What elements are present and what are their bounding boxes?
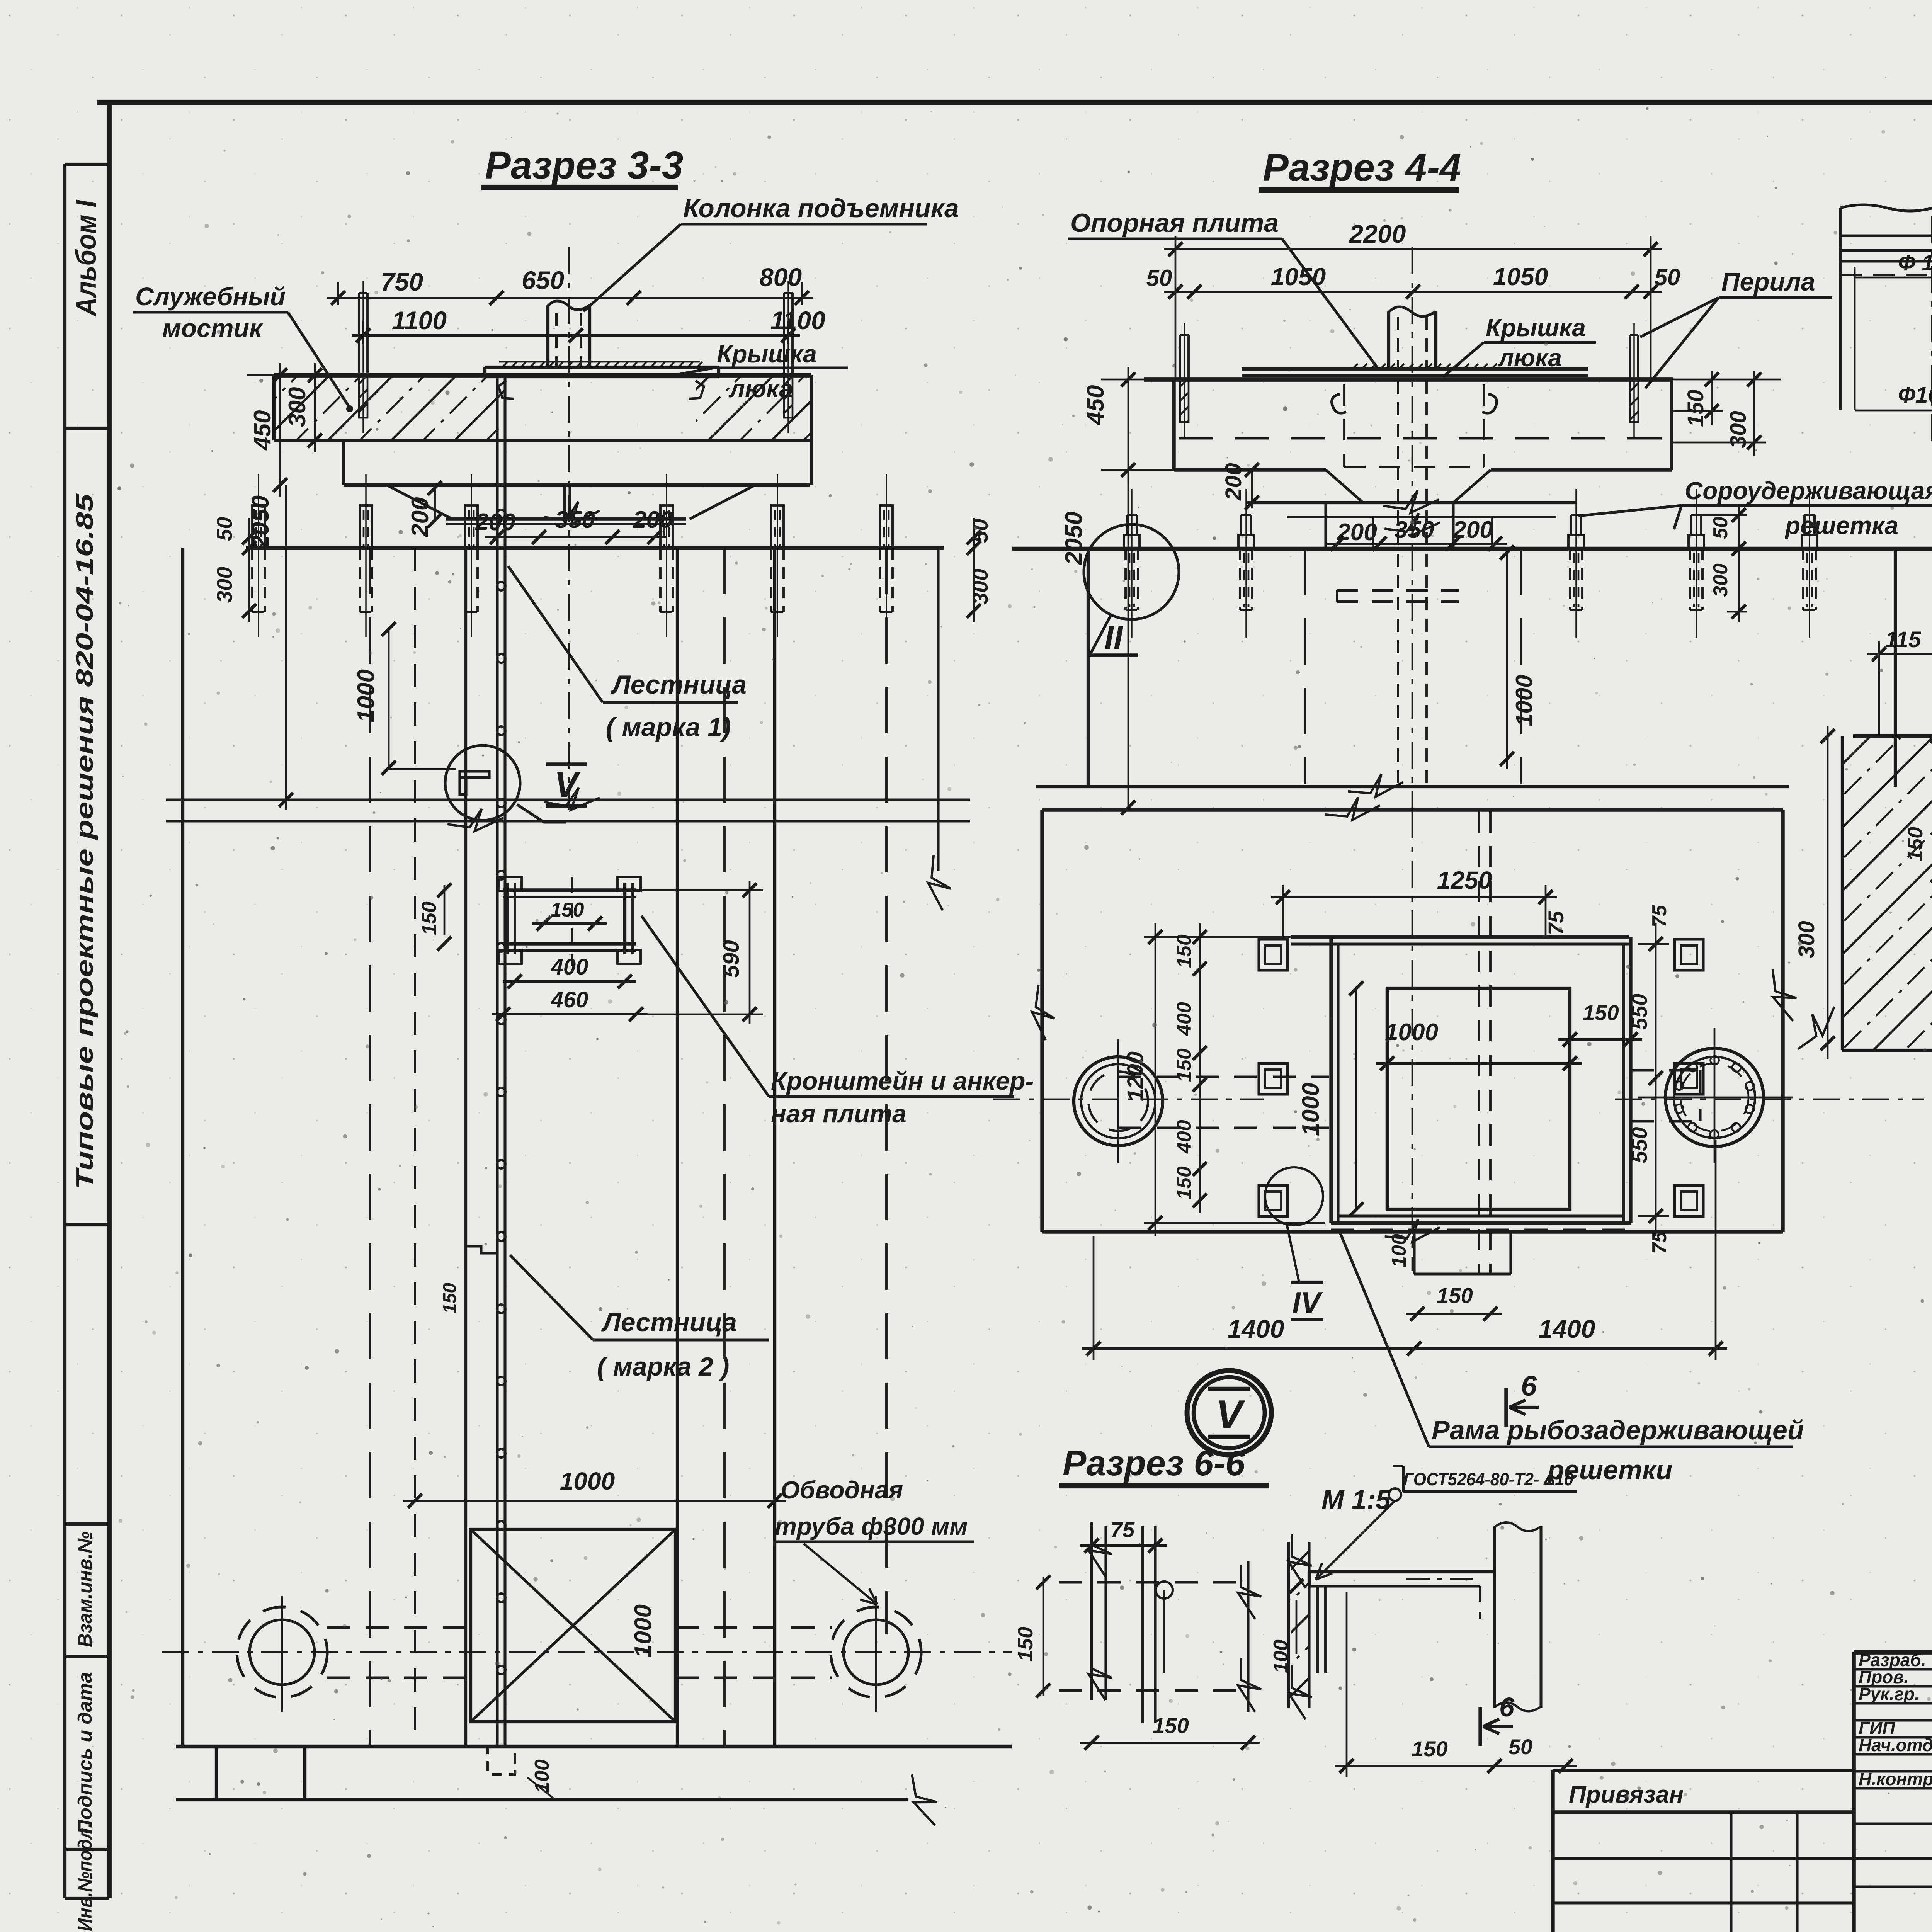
svg-text:Разрез 4-4: Разрез 4-4 bbox=[1263, 146, 1461, 189]
svg-text:50: 50 bbox=[1509, 1735, 1532, 1759]
svg-text:115: 115 bbox=[1885, 627, 1921, 652]
svg-text:Инв. №: Инв. № bbox=[1557, 1928, 1622, 1932]
svg-text:Инв.№подл.: Инв.№подл. bbox=[74, 1823, 96, 1931]
svg-text:550: 550 bbox=[1627, 994, 1651, 1030]
svg-text:Служебный: Служебный bbox=[135, 282, 286, 311]
svg-text:200: 200 bbox=[1337, 519, 1377, 546]
svg-text:800: 800 bbox=[759, 263, 802, 291]
svg-text:1200: 1200 bbox=[1123, 1051, 1148, 1101]
svg-text:Крышка: Крышка bbox=[717, 340, 817, 368]
svg-text:Типовые проектные решения 8: Типовые проектные решения 820-04-16.85 bbox=[71, 493, 98, 1189]
svg-text:Лестница: Лестница bbox=[611, 670, 747, 699]
svg-text:50: 50 bbox=[212, 517, 236, 541]
svg-text:50: 50 bbox=[1146, 265, 1172, 291]
svg-text:450: 450 bbox=[249, 410, 276, 451]
svg-text:1050: 1050 bbox=[1493, 263, 1548, 291]
svg-text:50: 50 bbox=[1655, 264, 1680, 290]
svg-text:1400: 1400 bbox=[1539, 1315, 1595, 1343]
svg-text:2050: 2050 bbox=[247, 495, 274, 549]
svg-text:150: 150 bbox=[1173, 934, 1196, 968]
svg-text:1100: 1100 bbox=[770, 306, 825, 335]
svg-text:ная плита: ная плита bbox=[771, 1099, 906, 1128]
svg-text:ГОСТ5264-80-Т2- Δ10: ГОСТ5264-80-Т2- Δ10 bbox=[1403, 1469, 1573, 1489]
svg-text:200: 200 bbox=[475, 509, 515, 536]
svg-text:( марка 1): ( марка 1) bbox=[606, 713, 731, 742]
svg-text:150: 150 bbox=[1437, 1283, 1473, 1308]
svg-text:2050: 2050 bbox=[1061, 512, 1087, 565]
svg-text:труба ф300 мм: труба ф300 мм bbox=[775, 1512, 968, 1540]
svg-text:150: 150 bbox=[1683, 389, 1708, 427]
svg-text:75: 75 bbox=[1648, 1231, 1671, 1254]
svg-text:200: 200 bbox=[1221, 463, 1246, 501]
svg-text:100: 100 bbox=[1388, 1234, 1410, 1267]
svg-text:( марка 2 ): ( марка 2 ) bbox=[597, 1352, 730, 1381]
svg-text:Подпись и дата: Подпись и дата bbox=[74, 1672, 96, 1834]
svg-text:1250: 1250 bbox=[1437, 866, 1492, 894]
svg-text:1000: 1000 bbox=[353, 669, 379, 723]
svg-text:150: 150 bbox=[1173, 1166, 1196, 1200]
svg-text:100: 100 bbox=[531, 1759, 553, 1793]
svg-text:М 1:5: М 1:5 bbox=[1321, 1485, 1391, 1515]
svg-text:150: 150 bbox=[1173, 1048, 1196, 1082]
svg-text:300: 300 bbox=[968, 569, 992, 605]
svg-text:Сороудерживающая: Сороудерживающая bbox=[1685, 477, 1932, 505]
svg-text:Перила: Перила bbox=[1721, 267, 1815, 296]
svg-text:1100: 1100 bbox=[392, 306, 447, 335]
svg-text:590: 590 bbox=[719, 940, 744, 978]
svg-text:450: 450 bbox=[1082, 385, 1109, 426]
svg-text:1000: 1000 bbox=[1298, 1083, 1324, 1136]
svg-text:150: 150 bbox=[1014, 1627, 1037, 1662]
svg-text:150: 150 bbox=[1412, 1736, 1447, 1761]
svg-text:300: 300 bbox=[284, 387, 311, 427]
svg-text:200: 200 bbox=[407, 497, 434, 537]
svg-text:300: 300 bbox=[1709, 563, 1732, 597]
svg-text:V: V bbox=[1216, 1392, 1245, 1437]
svg-text:Обводная: Обводная bbox=[781, 1476, 903, 1504]
svg-text:75: 75 bbox=[1648, 905, 1671, 927]
svg-text:Разрез 3-3: Разрез 3-3 bbox=[485, 144, 683, 187]
svg-text:1050: 1050 bbox=[1271, 263, 1326, 291]
svg-text:460: 460 bbox=[551, 987, 588, 1012]
svg-text:150: 150 bbox=[1904, 827, 1927, 862]
svg-text:Кронштейн и анкер-: Кронштейн и анкер- bbox=[771, 1066, 1034, 1095]
svg-text:Лестница: Лестница bbox=[601, 1308, 737, 1337]
svg-text:Рама рыбозадерживающей: Рама рыбозадерживающей bbox=[1432, 1415, 1804, 1445]
svg-text:100: 100 bbox=[1270, 1639, 1292, 1673]
svg-text:решетка: решетка bbox=[1784, 512, 1898, 539]
svg-text:1000: 1000 bbox=[560, 1467, 615, 1495]
svg-text:150: 150 bbox=[1583, 1000, 1619, 1025]
svg-text:400: 400 bbox=[1173, 1002, 1196, 1036]
svg-text:150: 150 bbox=[418, 901, 440, 935]
svg-text:Нач.отд.: Нач.отд. bbox=[1859, 1735, 1932, 1755]
svg-text:1000: 1000 bbox=[630, 1604, 656, 1658]
svg-text:300: 300 bbox=[212, 567, 236, 603]
svg-text:400: 400 bbox=[551, 954, 588, 980]
svg-text:50: 50 bbox=[1709, 517, 1732, 539]
svg-text:V: V bbox=[554, 765, 580, 804]
svg-text:550: 550 bbox=[1627, 1127, 1651, 1163]
svg-text:150: 150 bbox=[1153, 1713, 1189, 1738]
svg-text:1000: 1000 bbox=[1511, 675, 1537, 726]
svg-text:75: 75 bbox=[1111, 1517, 1135, 1542]
svg-text:6: 6 bbox=[1499, 1692, 1515, 1722]
svg-text:люка: люка bbox=[1497, 344, 1562, 372]
svg-text:2200: 2200 bbox=[1349, 219, 1406, 248]
svg-text:Колонка подъемника: Колонка подъемника bbox=[683, 194, 959, 223]
svg-text:Н.контр.: Н.контр. bbox=[1859, 1769, 1932, 1789]
svg-text:IV: IV bbox=[1292, 1286, 1323, 1320]
svg-text:1000: 1000 bbox=[1385, 1019, 1438, 1046]
svg-text:Опорная плита: Опорная плита bbox=[1070, 208, 1279, 238]
svg-text:750: 750 bbox=[381, 267, 423, 296]
svg-text:50: 50 bbox=[968, 519, 992, 543]
svg-text:Крышка: Крышка bbox=[1486, 314, 1586, 342]
svg-text:Взам.инв.№: Взам.инв.№ bbox=[74, 1531, 96, 1647]
svg-text:Ф160: Ф160 bbox=[1898, 383, 1932, 408]
svg-text:150: 150 bbox=[551, 899, 584, 921]
svg-text:200: 200 bbox=[1452, 517, 1493, 543]
svg-text:Ф 180: Ф 180 bbox=[1898, 250, 1932, 276]
svg-text:650: 650 bbox=[522, 266, 564, 294]
svg-text:6: 6 bbox=[1521, 1370, 1537, 1402]
svg-text:мостик: мостик bbox=[162, 314, 264, 342]
svg-text:300: 300 bbox=[1794, 921, 1819, 958]
svg-text:Альбом I: Альбом I bbox=[70, 200, 102, 317]
svg-text:400: 400 bbox=[1173, 1120, 1196, 1154]
svg-text:75: 75 bbox=[1544, 911, 1568, 935]
svg-text:1400: 1400 bbox=[1228, 1315, 1284, 1343]
svg-text:Разрез 6-6: Разрез 6-6 bbox=[1063, 1444, 1245, 1483]
svg-text:150: 150 bbox=[440, 1283, 460, 1314]
svg-text:Рук.гр.: Рук.гр. bbox=[1859, 1684, 1920, 1704]
